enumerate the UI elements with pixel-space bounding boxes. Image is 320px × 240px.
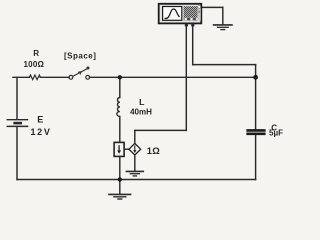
svg-text:5µF: 5µF bbox=[269, 129, 283, 138]
svg-text:R: R bbox=[33, 49, 39, 58]
svg-text:12V: 12V bbox=[30, 127, 51, 137]
svg-text:[Space]: [Space] bbox=[64, 52, 96, 61]
svg-text:100Ω: 100Ω bbox=[24, 60, 45, 69]
svg-text:40mH: 40mH bbox=[130, 107, 152, 116]
svg-text:1Ω: 1Ω bbox=[147, 145, 161, 156]
svg-text:E: E bbox=[37, 114, 43, 124]
svg-text:L: L bbox=[139, 97, 145, 107]
